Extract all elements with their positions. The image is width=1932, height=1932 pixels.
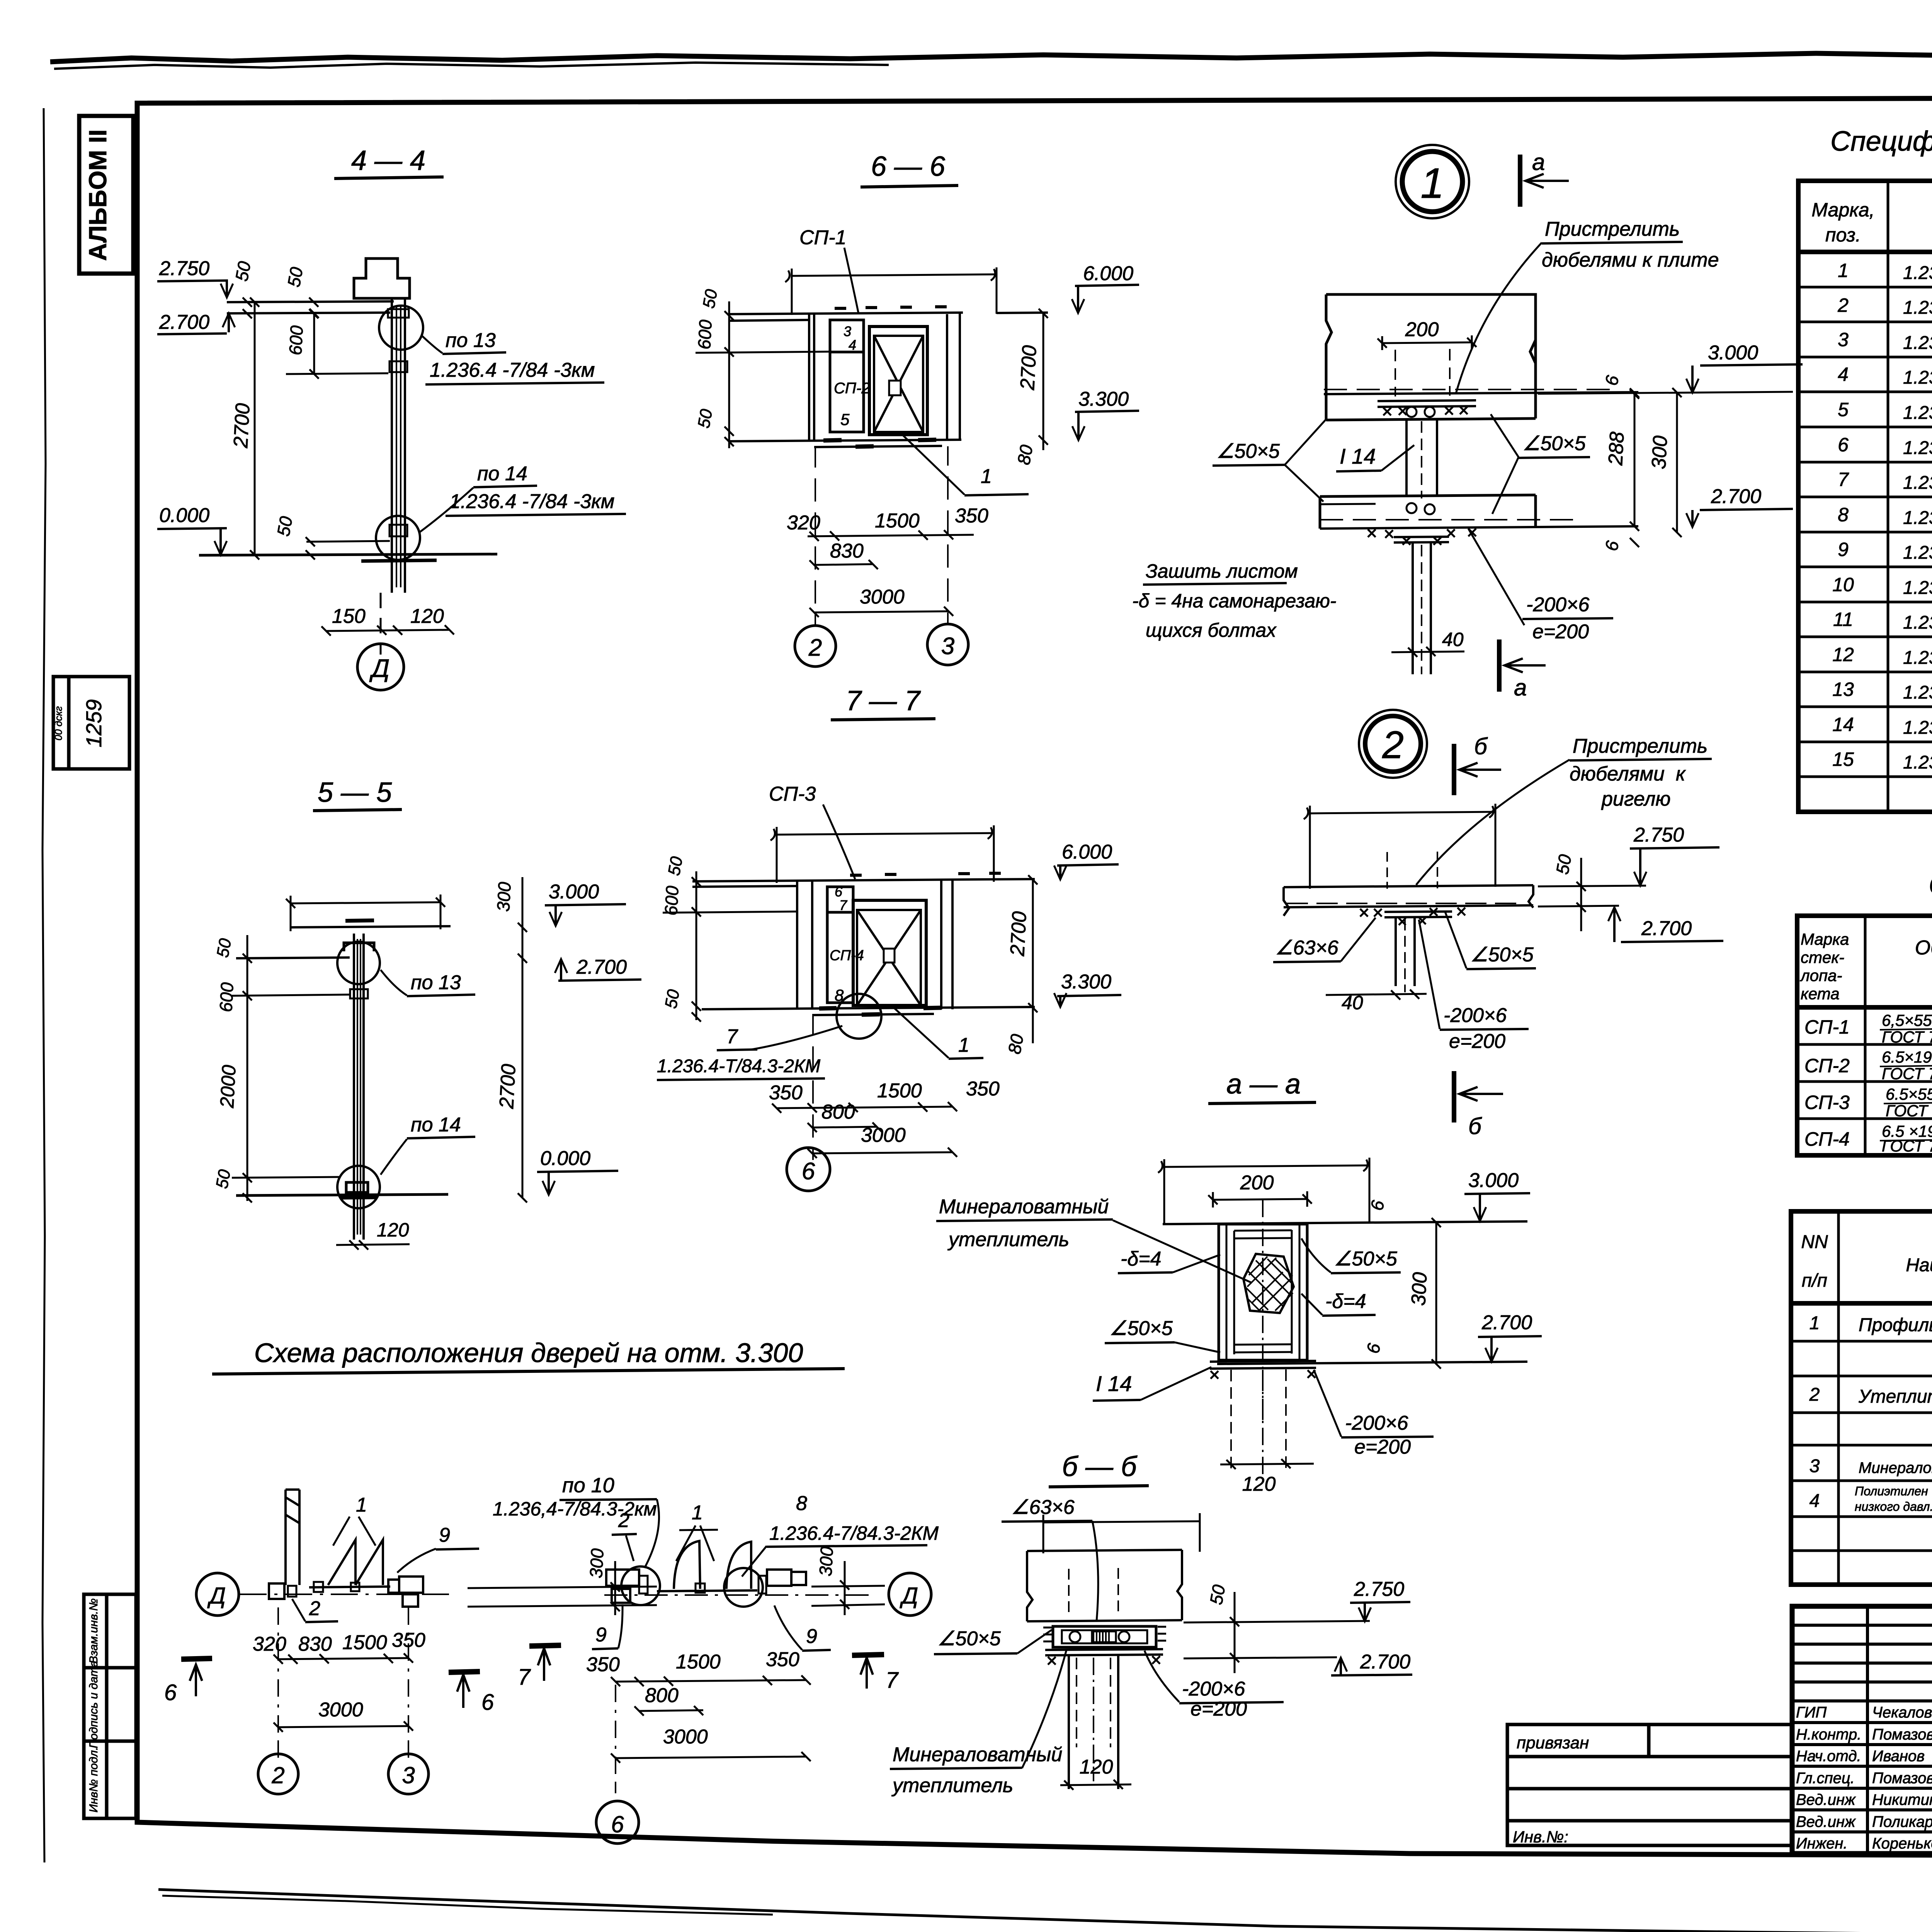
svg-text:6: 6 [164,1680,177,1705]
level 2.750 node2 [1538,824,1719,886]
dim 120 5-5 [336,1219,410,1250]
svg-text:-200×6: -200×6 [1345,1412,1408,1434]
svg-text:Д: Д [369,654,389,682]
section mark а bottom node1 [1499,639,1546,701]
svg-text:Схема расположения дверей на о: Схема расположения дверей на отм. 3.300 [254,1338,803,1368]
ground line 5-5 [236,1194,448,1196]
connection assembly б-б [1053,1626,1156,1647]
label 9 right of right plan [774,1605,831,1651]
bolts node1 [1406,407,1417,417]
svg-text:Минераловатный: Минераловатный [893,1743,1062,1766]
svg-text:1.236.4-⁷/84: 1.236.4-⁷/84 [1903,438,1932,458]
label -200x6 e=200 node2 [1419,920,1529,1053]
svg-text:1: 1 [692,1502,703,1524]
dashed line under slab top node1 [1324,389,1610,390]
svg-text:ГОСТ 7380-77: ГОСТ 7380-77 [1882,1028,1932,1046]
label -200x6 e=200 а-а [1314,1370,1434,1458]
svg-text:7: 7 [886,1668,899,1693]
Привязан box [1507,1725,1792,1845]
TITLE BLOCK [1792,1606,1932,1854]
left jamb assembly right plan [606,1570,648,1603]
wall right verticals 7-7 [941,880,952,1009]
svg-text:1.236.4 -⁷/84: 1.236.4 -⁷/84 [1903,508,1932,528]
svg-text:200: 200 [1405,318,1439,341]
dim 800 7-7 [808,1101,882,1132]
svg-text:Обозначение: Обозначение [1915,937,1932,959]
dim 120 б-б [1060,1756,1131,1790]
axis dash lines left plan [278,1607,408,1758]
axis circle 3 plan [388,1754,429,1794]
level 3.300 7-7 [1054,971,1121,1007]
top dim line 5-5 [286,895,445,931]
svg-text:6: 6 [481,1690,494,1715]
svg-text:по 13: по 13 [446,329,496,352]
svg-text:1.236.4-Т/84.3-2КМ: 1.236.4-Т/84.3-2КМ [657,1056,820,1077]
bottom slab 6-6 [729,440,961,447]
left dim chain 5-5 [213,935,350,1202]
svg-text:350: 350 [586,1653,620,1676]
svg-text:1.236.4-⁷/84: 1.236.4-⁷/84 [1903,612,1932,633]
section mark 6 left [164,1658,212,1705]
x marks node2 [1360,908,1465,925]
dim 300 left plan [468,1548,657,1615]
svg-text:Никитина: Никитина [1872,1791,1932,1808]
svg-text:СП-2: СП-2 [834,380,870,397]
node circle 2 [1359,710,1427,778]
dim 600 vertical [285,309,388,379]
dim 3000 7-7 [808,1124,957,1158]
svg-text:1259: 1259 [82,699,106,748]
TABLE 2 body [1804,1016,1850,1150]
dims 350 1500 350 7-7 [769,1078,1000,1113]
dim 2700 vertical [230,298,259,560]
ground line 4-4 [199,554,497,555]
svg-text:50: 50 [284,265,307,289]
svg-text:ригелю: ригелю [1601,788,1671,810]
svg-text:600: 600 [694,319,716,350]
label 1 left plan [333,1494,376,1546]
svg-text:4 — 4: 4 — 4 [351,145,425,176]
label 8 right plan [742,1492,939,1577]
level 2.700 node2 [1538,906,1723,942]
svg-text:СП-1: СП-1 [1804,1016,1850,1038]
svg-text:6.000: 6.000 [1062,841,1112,863]
svg-text:80: 80 [1004,1032,1027,1056]
TABLE 1 body text [1832,260,1854,770]
svg-text:утеплитель: утеплитель [891,1774,1013,1797]
svg-text:∠63×6: ∠63×6 [1275,937,1338,959]
dim 3000 left plan [274,1699,413,1732]
label по 13 5-5 [381,970,475,996]
anchor dashed bolts node1 [1395,349,1450,396]
svg-text:2000: 2000 [216,1064,240,1109]
svg-text:Помазов: Помазов [1872,1726,1932,1743]
level mark 2.700 [157,311,235,334]
label по 10 [493,1474,659,1568]
svg-text:1.236.4-⁷/84: 1.236.4-⁷/84 [1903,298,1932,318]
label 9 left plan [397,1524,479,1573]
axis circle Д [357,644,404,690]
svg-text:300: 300 [1407,1272,1431,1306]
torn paper edge top [50,52,1932,69]
dims 320 1500 350 6-6 [787,505,988,541]
rigel band node2 [1284,885,1533,916]
section mark 7 right [852,1655,899,1693]
dim 300 а-а [1407,1218,1441,1369]
node circle top (по 13) [379,306,423,350]
album label box left top [79,116,133,274]
svg-text:-δ=4: -δ=4 [1325,1290,1366,1313]
bottom slab 7-7 [702,1007,1035,1015]
svg-text:9: 9 [595,1624,607,1646]
level 2.700 а-а [1478,1311,1542,1362]
svg-text:Инжен.: Инжен. [1796,1835,1848,1852]
svg-text:Марка,: Марка, [1811,199,1874,221]
section 4-4 title [334,145,444,179]
axis Д centerline [240,1594,449,1595]
svg-text:1.236.4 -⁷/84: 1.236.4 -⁷/84 [1903,367,1932,388]
label I 14 [1336,444,1414,471]
svg-text:по 13: по 13 [411,971,461,994]
svg-text:50: 50 [665,855,687,877]
level mark 2.750 [157,257,233,298]
svg-text:Взам.инв.№: Взам.инв.№ [87,1599,100,1664]
svg-text:1500: 1500 [342,1631,387,1654]
note Минераловатный утеплитель (а-а) [936,1196,1252,1283]
svg-text:Зашить листом: Зашить листом [1146,560,1298,582]
left margin 1259 box [53,677,129,769]
svg-text:Минераловатный: Минераловатный [939,1196,1109,1218]
svg-text:-200×6: -200×6 [1526,594,1589,616]
svg-text:1: 1 [958,1034,969,1056]
level 2.750 б-б [1184,1578,1410,1622]
svg-text:4: 4 [1810,1491,1820,1511]
svg-text:150: 150 [332,605,366,628]
svg-text:2.700: 2.700 [1711,485,1761,508]
svg-text:2: 2 [618,1509,629,1532]
svg-text:1500: 1500 [676,1651,721,1673]
door swing arcs right plan [657,1541,757,1593]
svg-text:Минераловатн. утеплитель: Минераловатн. утеплитель [1859,1459,1932,1476]
svg-text:8: 8 [796,1492,807,1515]
svg-text:2700: 2700 [1006,911,1031,957]
section mark б top node2 [1454,733,1501,795]
svg-text:∠50×5: ∠50×5 [1334,1248,1398,1270]
svg-text:утеплитель: утеплитель [947,1228,1069,1251]
label L50x5 б-б [934,1628,1052,1654]
svg-text:Вед.инж: Вед.инж [1796,1791,1856,1808]
svg-text:40: 40 [1442,629,1464,650]
level 3.000 node1 [1538,342,1803,394]
svg-text:3.300: 3.300 [1078,388,1129,410]
svg-text:1: 1 [1420,160,1444,207]
svg-text:Утеплитель гермит: Утеплитель гермит [1858,1386,1932,1407]
svg-text:1.236.4-⁷/84: 1.236.4-⁷/84 [1903,718,1932,738]
svg-text:по 14: по 14 [411,1114,461,1136]
svg-text:NN: NN [1801,1232,1828,1252]
svg-text:2.700: 2.700 [1641,917,1692,940]
axis circle Д left [196,1573,239,1616]
detail circle right right-plan [724,1568,763,1607]
svg-text:1500: 1500 [877,1080,922,1102]
bottom plate а-а [1210,1361,1316,1369]
svg-text:3: 3 [941,633,954,660]
svg-text:3.000: 3.000 [1708,342,1758,364]
svg-text:1.236.4-⁷/84: 1.236.4-⁷/84 [1903,682,1932,703]
angle plate under slab node1 [1378,400,1476,407]
svg-text:6 — 6: 6 — 6 [871,151,946,182]
svg-text:3.000: 3.000 [549,881,599,903]
svg-text:6: 6 [802,1158,815,1185]
svg-text:2.750: 2.750 [1354,1578,1404,1600]
label 1 right plan [676,1502,718,1561]
dim 300 node1 [1648,388,1682,537]
rigel block б-б [1027,1550,1182,1621]
svg-text:1.236.4 -7/84 -3км: 1.236.4 -7/84 -3км [449,490,614,513]
svg-text:а — а: а — а [1226,1069,1301,1100]
svg-text:800: 800 [645,1684,679,1707]
svg-text:50: 50 [662,988,684,1010]
dim 288 node1 [1604,388,1639,531]
svg-text:7: 7 [839,897,848,913]
panel labels 7-7 [830,884,864,1004]
base plate 4-4 [361,560,437,561]
level 3.000 5-5 [545,881,626,926]
dim 40 node2 [1326,990,1427,1014]
I-beam below б-б [1069,1655,1118,1789]
svg-text:15: 15 [1832,748,1854,770]
vertical dashed bolts node2 [1387,852,1437,889]
TABLE 3 body [1809,1313,1932,1582]
svg-text:СП-1: СП-1 [799,226,846,249]
svg-text:300: 300 [586,1548,607,1579]
svg-text:0.000: 0.000 [159,504,209,527]
svg-text:3000: 3000 [860,586,905,608]
wall right verticals 6-6 [947,314,960,441]
svg-text:2.700: 2.700 [159,311,209,333]
dim 40 node1 [1391,629,1464,657]
hatch ticks slab 7-7 [850,873,1001,875]
TABLE 1 header text [1811,199,1932,246]
svg-text:300: 300 [1648,435,1672,470]
section а-а title [1208,1069,1316,1104]
svg-text:120: 120 [410,605,444,628]
I-beam between slabs node1 [1406,419,1437,498]
svg-text:Помазов: Помазов [1872,1770,1932,1787]
left dim chain 6-6 [694,288,830,448]
TABLE 2 header text [1799,930,1849,1003]
svg-text:600: 600 [285,325,307,356]
torn paper edge left [43,108,46,1862]
svg-text:350: 350 [966,1078,1000,1100]
top dim line б-б [1043,1513,1200,1553]
level lines top 4-4 [227,301,394,313]
svg-text:по 14: по 14 [477,463,527,485]
section mark 7 left [518,1645,561,1690]
svg-text:6,5×550×780: 6,5×550×780 [1882,1011,1932,1029]
svg-text:7: 7 [726,1026,738,1048]
svg-text:2: 2 [1837,294,1849,316]
axis line to Д [380,593,382,655]
axis circle 2 [795,626,836,667]
svg-text:Нач.отд.: Нач.отд. [1796,1748,1861,1765]
dim 6 top node1 [1601,374,1639,399]
wall left verticals 6-6 [809,314,814,441]
svg-text:3000: 3000 [318,1699,363,1721]
bottom plate б-б [1045,1649,1163,1655]
dim 2700 5-5 [495,954,527,1202]
bottom plate node1 [1394,537,1449,543]
section 5-5 title [313,777,402,811]
svg-text:50: 50 [1206,1583,1229,1606]
level 0.000 5-5 [537,1147,618,1195]
svg-text:поз.: поз. [1825,224,1861,246]
svg-text:1.236.4 -7/84 -3км: 1.236.4 -7/84 -3км [430,359,595,381]
lower slab node1 [1320,495,1638,529]
svg-text:1: 1 [981,465,992,488]
top dim line 7-7 [770,825,994,883]
node circle 1 [1396,145,1469,218]
note Пристрелить дюбелями к ригелю [1416,735,1712,885]
left margin stamp boxes bottom [84,1594,136,1818]
level 3.300 6-6 [1072,388,1139,440]
hatch ticks on slab top [835,307,947,308]
centerline right plan [604,1594,869,1596]
section mark б bottom node2 [1454,1071,1503,1139]
TABLE 2 grid [1797,916,1932,1155]
svg-text:1.236.4-⁷/84: 1.236.4-⁷/84 [1903,263,1932,283]
svg-text:1.236.4-⁷/84: 1.236.4-⁷/84 [1903,752,1932,773]
right jamb assembly right plan [759,1570,806,1594]
dim 200 а-а [1208,1172,1312,1207]
wall pier above left plan [286,1490,299,1585]
svg-text:Пристрелить: Пристрелить [1545,218,1680,240]
x marks lower node1 [1368,529,1476,545]
door leaf 7-7 [857,910,921,1005]
post 5-5 [340,934,377,1240]
svg-text:6.000: 6.000 [1083,262,1133,285]
svg-text:3: 3 [402,1762,415,1788]
svg-text:6: 6 [1838,434,1849,456]
svg-text:Марка: Марка [1801,930,1849,948]
label 7 / doc 7-7 [657,1026,842,1080]
level 3.000 а-а [1464,1169,1530,1221]
svg-text:1: 1 [1838,260,1849,281]
axis circle 2 plan [258,1754,298,1794]
label L50x5 node2 [1445,912,1536,969]
svg-text:Иванов: Иванов [1872,1748,1925,1765]
svg-text:50: 50 [213,937,235,959]
svg-text:0.000: 0.000 [540,1147,590,1170]
level 6.000 7-7 [1054,841,1119,879]
svg-text:-δ=4: -δ=4 [1121,1248,1162,1270]
svg-text:∠50×5: ∠50×5 [1109,1317,1173,1340]
label L50x5 left node1 [1213,419,1326,502]
svg-text:2: 2 [808,634,822,661]
level 2.700 node1 [1686,485,1793,527]
label СП-3 [769,783,855,879]
svg-text:-200×6: -200×6 [1444,1004,1507,1027]
frame and panel 7-7 [827,887,926,1005]
svg-text:1.236,4-7/84.3-2км: 1.236,4-7/84.3-2км [493,1498,657,1520]
svg-text:Гл.спец.: Гл.спец. [1796,1770,1855,1787]
left level line 2.700 5-5 [236,957,350,958]
svg-text:1.236.4 -⁷/84: 1.236.4 -⁷/84 [1903,403,1932,423]
svg-text:2700: 2700 [230,403,254,449]
svg-text:5: 5 [840,410,850,429]
svg-text:привязан: привязан [1517,1733,1589,1752]
dims 150 120 [321,605,454,636]
section 7-7 title [831,685,935,720]
label L50x5 node1 [1491,414,1590,514]
level 2.700 б-б [1184,1651,1412,1675]
svg-text:б — б: б — б [1062,1451,1138,1482]
svg-text:7 — 7: 7 — 7 [846,685,921,716]
svg-text:00 дскг: 00 дскг [53,706,64,741]
svg-text:3: 3 [1810,1456,1820,1476]
svg-text:3: 3 [1838,329,1849,350]
signature rows [1796,1704,1932,1852]
svg-text:∠50×5: ∠50×5 [1522,432,1586,455]
I-beam below а-а [1231,1369,1286,1474]
dim 200 inside slab [1378,318,1476,350]
dashed line lower slab node1 [1320,519,1573,520]
svg-text:830: 830 [298,1633,332,1655]
svg-text:320: 320 [253,1633,286,1655]
dim 800 right plan [634,1684,703,1716]
label -200x6 e=200 node1 [1468,529,1613,643]
svg-text:Коренькова: Коренькова [1872,1835,1932,1852]
svg-text:3000: 3000 [861,1124,906,1146]
svg-text:1500: 1500 [875,510,920,532]
label I 14 а-а [1093,1367,1211,1401]
dim 830 6-6 [810,540,878,570]
dim 3000 6-6 [810,586,953,617]
svg-text:50: 50 [213,1168,235,1190]
I-beam below node2 [1396,917,1415,992]
svg-text:-200×6: -200×6 [1182,1678,1245,1700]
dim 2700 right 7-7 [1006,875,1037,1043]
svg-text:по 10: по 10 [562,1474,614,1497]
svg-text:Вед.инж: Вед.инж [1796,1813,1856,1830]
svg-text:2.750: 2.750 [159,257,209,280]
svg-text:щихся болтах: щихся болтах [1146,619,1277,641]
svg-text:Подпись и дата: Подпись и дата [87,1661,100,1748]
svg-text:Д: Д [207,1583,226,1609]
svg-text:-δ = 4на самонарезаю-: -δ = 4на самонарезаю- [1132,590,1336,612]
svg-text:1.236.4-⁷/84: 1.236.4-⁷/84 [1903,543,1932,563]
dim 300 rotated 5-5 [493,877,527,958]
left dim chain 7-7 [661,855,797,1022]
svg-text:лопа-: лопа- [1799,966,1842,985]
svg-text:Наименование: Наименование [1906,1255,1932,1276]
label СП-1 [799,226,859,314]
top dim line 6-6 [785,267,997,315]
svg-text:АЛЬБОМ II: АЛЬБОМ II [84,129,112,261]
svg-text:Инв№ подл.: Инв№ подл. [87,1747,100,1812]
I-beam below node1 [1413,543,1431,674]
svg-text:б: б [1474,733,1488,759]
svg-text:5 — 5: 5 — 5 [318,777,392,808]
svg-text:СП-3: СП-3 [769,783,816,805]
label по 14 [419,463,626,532]
level 6.000 6-6 [1072,262,1139,313]
bolts lower node1 [1406,503,1417,513]
svg-text:3.000: 3.000 [1468,1169,1519,1192]
label -200x6 e=200 б-б [1145,1651,1284,1720]
section mark 6 right [449,1672,494,1715]
svg-text:∠50×5: ∠50×5 [1216,440,1280,463]
